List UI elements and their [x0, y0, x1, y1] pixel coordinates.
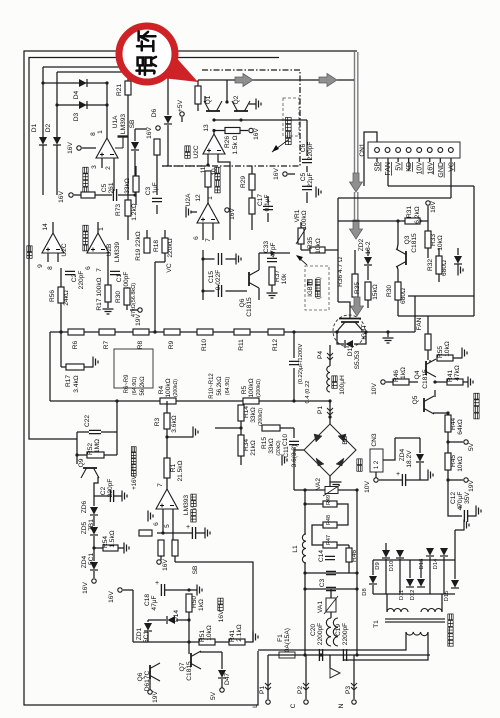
- wire CN3 route: [383, 438, 395, 460]
- svg-text:R52: R52: [87, 443, 94, 455]
- wire CN1 GND stub: [439, 158, 441, 162]
- junction pin11: [206, 163, 209, 166]
- svg-text:C2: C2: [100, 486, 107, 495]
- wire U2B out: [97, 222, 99, 233]
- svg-text:33kΩ: 33kΩ: [268, 438, 275, 454]
- wire R49 left: [305, 503, 323, 505]
- svg-text:C3: C3: [145, 186, 152, 195]
- svg-text:D47: D47: [224, 673, 231, 685]
- wire D4 rail: [43, 82, 107, 84]
- resistor R5: [243, 398, 259, 404]
- node 16V U1A: [77, 146, 81, 150]
- junction box top a: [396, 219, 399, 222]
- wire top rail 4: [57, 71, 150, 73]
- junction driver pointer head: [272, 145, 279, 152]
- wire U1A pin3 down: [101, 158, 103, 168]
- transistor Q4: [426, 359, 436, 377]
- junction gray arrow IGBT: [351, 297, 364, 316]
- wire U2C in8: [57, 253, 59, 262]
- wire va2 rail: [294, 489, 357, 491]
- wire D47 down: [221, 679, 223, 688]
- wire R19 up: [146, 230, 148, 238]
- wire R17c vert: [60, 332, 62, 367]
- wire T1 pri right: [344, 632, 428, 660]
- wire R29 up: [251, 166, 253, 174]
- svg-text:C10: C10: [282, 434, 289, 446]
- svg-text:D9: D9: [375, 562, 381, 569]
- connector CN1: [368, 142, 460, 158]
- inductor T1 sec2: [421, 609, 442, 613]
- wire gnd stub Q2: [249, 103, 256, 105]
- wire D14b join: [443, 557, 445, 594]
- wire BD top: [329, 410, 331, 424]
- wire R47 right: [337, 544, 349, 546]
- svg-text:8: 8: [90, 132, 97, 136]
- diode D13: [426, 548, 434, 556]
- node IGBT note box: [305, 266, 329, 310]
- resistor R2b: [158, 540, 164, 556]
- op-amp U2C drv: [203, 134, 225, 154]
- resistor R55: [437, 355, 453, 361]
- wire R41b left: [435, 381, 447, 383]
- wire R30b join: [398, 315, 428, 317]
- capacitor C22: [89, 430, 101, 433]
- svg-text:R12: R12: [272, 339, 279, 351]
- diode D14b: [440, 548, 448, 556]
- node CN1 pin 16V: [427, 148, 432, 153]
- junction pin13: [212, 129, 215, 132]
- svg-text:R29: R29: [240, 176, 247, 188]
- svg-text:ZD4: ZD4: [81, 555, 88, 568]
- wire D14 left: [148, 619, 166, 621]
- wire FAN drop: [427, 316, 429, 334]
- svg-text:(200kΩ): (200kΩ): [258, 408, 264, 426]
- svg-text:R7: R7: [103, 340, 110, 349]
- capacitor C5b: [302, 186, 312, 189]
- svg-text:24kΩ: 24kΩ: [63, 290, 70, 306]
- wire C2b right: [114, 495, 122, 497]
- svg-text:21.5kΩ: 21.5kΩ: [177, 460, 184, 481]
- wire C2b left: [94, 495, 110, 497]
- resistor R30b: [395, 282, 401, 300]
- junction D4 left: [41, 81, 44, 84]
- node P3 N: [352, 700, 356, 704]
- svg-text:Q1: Q1: [205, 95, 212, 104]
- svg-text:C1: C1: [116, 273, 123, 282]
- svg-text:LM339: LM339: [114, 242, 121, 262]
- wire 16V reg drop: [132, 590, 134, 642]
- wire gray bus vertical 2: [355, 192, 358, 225]
- svg-text:33kΩ: 33kΩ: [250, 407, 257, 423]
- op-amp U2B: [87, 233, 109, 253]
- wire emitter rail right: [345, 331, 415, 333]
- wire gray bus vertical: [355, 52, 358, 178]
- wire BD bottom: [329, 476, 331, 487]
- junction bus c: [292, 330, 295, 333]
- label driver circuit: [286, 117, 292, 144]
- wire R24 up: [197, 80, 199, 86]
- wire C16 right: [196, 532, 205, 534]
- svg-text:1.5kΩ: 1.5kΩ: [109, 530, 116, 547]
- wire R18 up: [164, 230, 166, 238]
- wire R24 down: [197, 104, 199, 111]
- node 16V mid: [283, 172, 287, 176]
- wire R44 down: [447, 432, 449, 453]
- svg-text:VR1: VR1: [294, 209, 301, 222]
- label sync: [27, 246, 32, 258]
- svg-text:+16V: +16V: [132, 476, 138, 490]
- label hv protect 2: [83, 225, 88, 251]
- resistor R12: [268, 329, 284, 335]
- svg-text:R6~R9: R6~R9: [124, 374, 130, 394]
- svg-text:S5J53: S5J53: [354, 350, 361, 369]
- diode ZD2: [364, 257, 372, 265]
- svg-text:Q9: Q9: [78, 458, 85, 467]
- node CN1 pin 5V: [396, 148, 401, 153]
- junction filt a: [303, 571, 306, 574]
- wire D2 branch: [56, 72, 58, 137]
- diode D47: [218, 670, 226, 678]
- svg-text:R44: R44: [450, 418, 457, 430]
- wire box right: [473, 296, 475, 316]
- label IGBT note 1: [307, 280, 314, 297]
- wire D8 down: [372, 585, 374, 594]
- svg-text:D2: D2: [45, 123, 52, 132]
- ground bus: [253, 632, 258, 643]
- resistor R36: [352, 274, 358, 297]
- svg-text:R1: R1: [170, 463, 177, 472]
- svg-text:FAN: FAN: [416, 317, 423, 330]
- svg-text:C1815: C1815: [246, 297, 253, 317]
- capacitor C33: [267, 258, 277, 261]
- transistor Q6b: [249, 270, 259, 288]
- svg-text:R41: R41: [229, 630, 236, 642]
- svg-text:C12: C12: [450, 492, 457, 504]
- svg-text:VA1: VA1: [317, 601, 324, 613]
- ground R17b: [103, 309, 114, 314]
- resistor R35a: [310, 247, 325, 253]
- transformer T1 core: [385, 619, 445, 622]
- svg-text:R6: R6: [72, 340, 79, 349]
- resistor R2c: [172, 540, 178, 556]
- svg-text:C17: C17: [257, 194, 264, 206]
- svg-text:C22: C22: [84, 415, 91, 427]
- svg-text:22μF: 22μF: [307, 172, 314, 187]
- wire VC from CN1: [450, 158, 452, 198]
- wire VC left: [155, 261, 165, 263]
- junction box top b: [418, 219, 421, 222]
- svg-text:R3: R3: [154, 417, 161, 426]
- svg-text:+: +: [186, 524, 190, 531]
- svg-text:LM393: LM393: [120, 114, 127, 134]
- svg-text:R30: R30: [115, 291, 122, 303]
- wire U1A pin8: [82, 147, 96, 149]
- wire Q4 base wire: [429, 360, 431, 362]
- junction va2 right: [355, 488, 358, 491]
- wire rail riser: [414, 296, 416, 332]
- wire +5V: [181, 117, 183, 122]
- wire C3 1uF down: [156, 205, 158, 214]
- wire P1 drop: [267, 655, 269, 699]
- wire emitters rail: [214, 119, 256, 121]
- wire IGBT gate: [337, 250, 339, 302]
- wire R2c down: [174, 556, 176, 562]
- node P2 C: [304, 700, 308, 704]
- junction va2 left: [303, 488, 306, 491]
- svg-text:220kΩ: 220kΩ: [167, 238, 174, 257]
- wire D1b loop: [337, 332, 366, 344]
- wire U1A pin2 down: [113, 158, 115, 191]
- diode D7: [454, 256, 462, 264]
- wire D10 join: [399, 559, 401, 594]
- wire R21 down: [127, 95, 129, 200]
- capacitor C13: [402, 474, 405, 486]
- label IGBT note 2: [315, 277, 322, 299]
- svg-text:16V: 16V: [108, 591, 115, 603]
- resistor R46b: [346, 548, 352, 562]
- resistor R46a: [393, 379, 409, 385]
- svg-text:BD: BD: [342, 435, 349, 444]
- ground xfmr: [464, 520, 469, 531]
- wire box top: [338, 220, 408, 222]
- junction U1A out mid: [105, 103, 108, 106]
- wire R37 down: [271, 285, 273, 292]
- wire R54 left: [94, 547, 103, 549]
- capacitor C15a: [218, 253, 221, 265]
- svg-text:16V: 16V: [229, 208, 236, 220]
- junction P2 chev: [303, 683, 309, 690]
- wire C33 up: [271, 253, 273, 255]
- svg-text:D1: D1: [31, 123, 38, 132]
- connector CN3: [370, 449, 383, 472]
- ground BD: [331, 482, 342, 487]
- wire R46a left: [386, 381, 393, 383]
- svg-text:R37: R37: [274, 270, 281, 282]
- resistor R21: [125, 81, 131, 95]
- svg-text:ZD1: ZD1: [136, 627, 143, 640]
- wire Q7 out2: [221, 652, 223, 662]
- varistor VA2: [323, 485, 340, 496]
- varistor VA1: [324, 596, 338, 614]
- wire R31 up: [427, 206, 429, 221]
- diode ZD6: [90, 507, 98, 515]
- ground IGBT: [383, 338, 394, 343]
- wire ZD1 down: [147, 632, 149, 642]
- resistor R3: [164, 413, 170, 429]
- wire C11 up: [293, 428, 295, 438]
- wire VC horizontal: [338, 197, 451, 199]
- svg-text:7: 7: [205, 238, 212, 242]
- svg-text:ZD5: ZD5: [81, 521, 88, 534]
- svg-text:2200pF: 2200pF: [317, 623, 324, 645]
- node 5V fan: [464, 440, 468, 444]
- node CN1 pin KD: [406, 148, 411, 153]
- wire main bus: [50, 331, 345, 333]
- svg-text:+5V: +5V: [177, 99, 184, 112]
- svg-text:7: 7: [96, 268, 103, 272]
- svg-text:(64.9Ω): (64.9Ω): [225, 377, 231, 396]
- wire CN1 16V stub: [429, 158, 431, 162]
- junction earth arrow: [330, 668, 340, 678]
- wire d rail: [373, 593, 455, 595]
- resistor R26: [225, 128, 240, 134]
- wire R52 right: [104, 454, 117, 456]
- svg-text:5V: 5V: [468, 442, 475, 451]
- junction C18: [187, 588, 190, 591]
- svg-text:(200kΩ): (200kΩ): [256, 379, 262, 397]
- diode D3: [79, 101, 87, 109]
- diode D9: [382, 550, 390, 558]
- svg-text:19V: 19V: [152, 691, 159, 703]
- wire top rail d: [373, 559, 455, 561]
- svg-text:16V: 16V: [67, 142, 74, 154]
- wire U2C out: [52, 222, 54, 233]
- svg-text:R5: R5: [241, 385, 248, 394]
- svg-text:1.5k Ω: 1.5k Ω: [232, 135, 239, 154]
- svg-text:10V: 10V: [417, 162, 424, 175]
- junction U1A out top: [105, 81, 108, 84]
- wire Q9 top: [76, 432, 78, 455]
- ground R54: [124, 543, 129, 554]
- capacitor C11: [289, 441, 299, 444]
- inductor L1: [302, 534, 306, 563]
- svg-text:R10~R12: R10~R12: [209, 373, 215, 399]
- wire C22 drop: [116, 401, 118, 432]
- svg-text:R17: R17: [65, 375, 72, 387]
- wire fan rail: [395, 437, 420, 439]
- wire SB route: [175, 562, 253, 642]
- svg-text:U2A: U2A: [185, 193, 192, 206]
- wire Q6b collector: [258, 253, 260, 270]
- diode ZD5: [90, 527, 98, 535]
- svg-text:+: +: [155, 580, 159, 587]
- wire R41b right: [463, 381, 468, 383]
- wire inner border: [29, 58, 279, 440]
- svg-text:7: 7: [157, 483, 164, 487]
- junction Q1 emitter: [212, 118, 215, 121]
- wire sec1 left: [386, 594, 388, 612]
- capacitor C2: [65, 271, 75, 274]
- capacitor C20: [319, 649, 322, 661]
- svg-text:12: 12: [195, 194, 202, 202]
- svg-text:R15: R15: [261, 437, 268, 449]
- svg-text:P2: P2: [297, 686, 304, 694]
- svg-text:1.2kΩ: 1.2kΩ: [131, 203, 138, 220]
- svg-text:R10: R10: [201, 339, 208, 351]
- resistor R35b: [365, 282, 371, 300]
- svg-text:16V: 16V: [58, 191, 65, 203]
- wire R45 drop: [447, 480, 449, 500]
- svg-text:16V: 16V: [162, 559, 169, 571]
- wire R35a left: [301, 249, 310, 251]
- wire zener mid2: [93, 536, 95, 561]
- node CN1 pin 10V: [417, 148, 422, 153]
- wire outer border: [24, 51, 357, 705]
- ground Q2: [256, 99, 261, 110]
- wire U1B in6: [162, 509, 164, 533]
- resistor R47: [323, 542, 337, 548]
- wire C16 left: [157, 532, 192, 534]
- wire R33 down: [427, 248, 429, 258]
- svg-text:Q6: Q6: [137, 672, 144, 681]
- wire C12 route: [448, 500, 462, 516]
- diode D2: [53, 137, 61, 145]
- node CN1 pin FAN: [385, 148, 390, 153]
- wire U1B in5: [172, 509, 174, 540]
- wire CN3 down: [375, 472, 377, 478]
- diode D10: [396, 550, 404, 558]
- svg-text:10kΩ: 10kΩ: [315, 238, 322, 254]
- wire P3 drop: [353, 655, 355, 699]
- svg-text:(0.22)μF/1200V: (0.22)μF/1200V: [298, 344, 304, 385]
- wire ZD2 up: [367, 250, 369, 256]
- op-amp U1A: [96, 138, 118, 158]
- node 19V: [138, 308, 142, 312]
- wire pin11 down: [207, 154, 209, 165]
- wire 16V mid stub: [288, 173, 295, 175]
- node 10V CN3: [374, 478, 378, 482]
- svg-text:C18: C18: [144, 594, 151, 606]
- wire D14 join: [188, 612, 190, 642]
- junction P1 chev: [265, 683, 271, 690]
- resistor R7: [99, 329, 115, 335]
- inductor T2b: [333, 618, 338, 646]
- wire D47 up: [221, 662, 223, 669]
- svg-text:D3: D3: [73, 112, 80, 121]
- resistor R50: [186, 594, 192, 612]
- junction D1b right: [364, 330, 367, 333]
- wire R2b down: [160, 556, 162, 560]
- svg-text:R34: R34: [243, 439, 250, 451]
- svg-text:R11: R11: [238, 339, 245, 351]
- svg-text:16V: 16V: [218, 610, 225, 622]
- svg-text:47kΩ(56.8kΩ): 47kΩ(56.8kΩ): [131, 283, 137, 317]
- wire CN1 10V stub: [418, 158, 420, 162]
- wire BD left drop: [293, 450, 295, 490]
- svg-text:13: 13: [203, 124, 210, 132]
- svg-text:SB: SB: [129, 119, 136, 128]
- svg-text:Q4: Q4: [414, 370, 421, 379]
- wire R25 down: [156, 155, 158, 166]
- junction filt b: [355, 571, 358, 574]
- ground C2b: [122, 491, 127, 502]
- svg-text:1: 1: [97, 130, 104, 134]
- wire D15 up: [454, 560, 456, 579]
- junction R49 tap: [303, 502, 306, 505]
- svg-text:10kΩ: 10kΩ: [437, 235, 444, 251]
- wire C6 bottom join: [306, 192, 308, 203]
- svg-text:1kΩ: 1kΩ: [400, 367, 407, 379]
- wire CN1 SB stub: [376, 158, 378, 162]
- junction mains b: [319, 653, 322, 656]
- wire VC down: [154, 262, 156, 332]
- wire C15b left: [203, 290, 215, 292]
- node 16V rail: [69, 193, 73, 197]
- wire C10 up: [293, 332, 295, 358]
- capacitor C5: [113, 189, 116, 201]
- svg-text:100kΩ: 100kΩ: [301, 210, 308, 229]
- transistor Q7: [191, 651, 201, 669]
- svg-text:C14: C14: [318, 550, 325, 562]
- svg-text:5C1: 5C1: [143, 631, 150, 643]
- junction P1 chev: [327, 408, 333, 415]
- svg-text:C: C: [290, 703, 297, 708]
- junction mains c: [355, 653, 358, 656]
- resistor R44: [445, 415, 451, 432]
- rectifier BD: [304, 424, 356, 476]
- wire R46a right: [409, 381, 418, 383]
- wire R46b down: [348, 562, 350, 573]
